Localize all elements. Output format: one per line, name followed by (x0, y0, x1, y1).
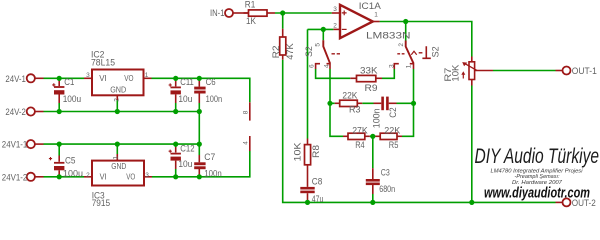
junction C3 bottom (370, 200, 375, 205)
svg-text:C3: C3 (381, 167, 390, 177)
capacitor C6 (100n) (194, 87, 205, 94)
junction C6 top (197, 76, 202, 81)
junction IC3 GND (115, 142, 120, 147)
wire right column R3 to R5 (402, 103, 414, 136)
pin C11 top (175, 81, 177, 86)
svg-text:R5: R5 (389, 140, 399, 150)
pin IC3 VO (144, 176, 152, 178)
junction C1 bottom (57, 109, 62, 114)
wire +24V row to IC2 VI (44, 77, 85, 79)
pin C8 top (307, 172, 309, 187)
switch S2 right section arm (406, 41, 414, 64)
svg-text:22K: 22K (342, 90, 357, 100)
pin IC3 VI (84, 176, 92, 178)
wire C11 column (175, 78, 177, 111)
pin stub OUT-2 (556, 201, 563, 203)
svg-text:www.diyaudiotr.com: www.diyaudiotr.com (484, 185, 590, 201)
wire +15V rail from IC2 VO to op-amp V+ corner (152, 78, 250, 102)
wire right pivot 2 drop (405, 22, 407, 41)
capacitor C12 (polarized 10u) (169, 150, 181, 161)
pin C2 right (389, 102, 397, 104)
svg-text:C5: C5 (65, 156, 76, 166)
switch S2 left section arm (323, 40, 330, 63)
wire op-amp output row (380, 22, 472, 57)
wire 24V1-2 row to IC3 VI (44, 176, 85, 178)
svg-text:VO: VO (124, 74, 133, 83)
wire R9 to contact3 (382, 69, 394, 78)
pin R2 top (282, 29, 284, 37)
junction C12 bottom (173, 174, 178, 179)
svg-text:GND: GND (110, 86, 126, 95)
pin C5 bottom (58, 170, 60, 177)
pin circle OUT-2 (563, 198, 571, 206)
switch S2 actuator caret (411, 51, 416, 55)
svg-text:LM833N: LM833N (366, 31, 411, 41)
svg-text:33K: 33K (360, 66, 378, 76)
pin op-amp in- (333, 28, 340, 30)
pin op-amp V+ 8 (249, 102, 251, 120)
pin R1 right (267, 12, 275, 14)
svg-text:3: 3 (86, 72, 90, 79)
wire C7 column (198, 144, 200, 177)
junction C1 top (57, 76, 62, 81)
svg-text:R2: R2 (271, 45, 281, 58)
svg-text:DIY Audio Türkiye: DIY Audio Türkiye (475, 144, 600, 168)
svg-text:1: 1 (145, 72, 149, 79)
svg-text:OUT-1: OUT-1 (572, 66, 597, 76)
svg-text:8: 8 (243, 110, 250, 114)
potentiometer R7 wiper arrow (462, 62, 477, 70)
capacitor C7 (100n) (194, 162, 205, 169)
capacitor C5 (polarized 100u) (49, 157, 65, 170)
pin R1 left (244, 12, 249, 14)
wire IC2 GND pin to ground row (116, 100, 118, 112)
pin R2 bottom (282, 55, 284, 60)
junction C12 top (173, 142, 178, 147)
capacitor C11 (polarized 10u) (169, 83, 181, 94)
junction R7 bottom (469, 200, 474, 205)
junction R4 R5 C3 (370, 134, 375, 139)
svg-text:3: 3 (145, 172, 149, 179)
wire R8-C8 column (307, 29, 309, 138)
resistor R5 (380, 133, 397, 139)
IC3 7915 regulator box (92, 161, 144, 186)
pin stub 24V-1 (35, 77, 44, 79)
capacitor C8 (47u) (300, 187, 314, 193)
pin IC2 VO (144, 77, 152, 79)
IC2 78L15 regulator box (92, 70, 144, 96)
svg-text:6: 6 (309, 64, 316, 68)
pin R5 left (375, 135, 380, 137)
svg-text:2: 2 (333, 23, 337, 30)
svg-text:C2: C2 (388, 107, 398, 117)
wire R2 column and bottom ground row (283, 13, 556, 202)
pin R9 left (350, 77, 356, 79)
svg-text:3: 3 (389, 64, 396, 68)
pin C7 top (198, 155, 200, 162)
svg-text:IC1A: IC1A (359, 1, 381, 11)
svg-text:R4: R4 (355, 140, 365, 150)
svg-text:1: 1 (113, 156, 120, 160)
pin stub IN-1 (233, 12, 248, 14)
junction C11 bottom (173, 109, 178, 114)
resistor R9 (357, 75, 376, 81)
svg-text:C12: C12 (180, 143, 194, 153)
wire right pole down to R5 junction (413, 69, 415, 103)
op-amp minus sign (342, 28, 347, 30)
pin C12 bottom (175, 161, 177, 169)
svg-text:100n: 100n (206, 94, 223, 104)
pin R3 left (335, 102, 340, 104)
svg-text:VI: VI (99, 74, 107, 83)
svg-text:C1: C1 (64, 77, 74, 87)
svg-text:1: 1 (405, 64, 412, 68)
svg-text:IN-1: IN-1 (210, 8, 225, 18)
pin R4 right (365, 135, 370, 137)
capacitor C2 (100n, horizontal) (381, 97, 388, 111)
pin C1 bottom (58, 95, 60, 104)
wire left column R3 to R4 (330, 103, 343, 136)
svg-text:100n: 100n (204, 169, 222, 179)
pin C3 top (372, 168, 374, 179)
svg-text:C7: C7 (204, 152, 215, 162)
pin C6 bottom (198, 94, 200, 104)
svg-text:100n: 100n (371, 109, 381, 129)
wire C6 top stub (198, 78, 200, 111)
svg-text:24V-1: 24V-1 (5, 74, 26, 84)
pin R5 right (397, 135, 402, 137)
wire left pole down to R3 junction (329, 69, 331, 103)
resistor R3 (340, 100, 358, 106)
svg-text:VI: VI (100, 173, 107, 182)
junction C7 top (197, 142, 202, 147)
potentiometer R7 body (469, 62, 475, 80)
junction input node (280, 10, 285, 15)
pin R8 top (307, 139, 309, 145)
wire R7 bottom to ground row (471, 86, 473, 203)
pin R7 wiper (475, 70, 494, 72)
svg-text:C8: C8 (312, 177, 323, 187)
junction C6 bottom (197, 109, 202, 114)
pin circle IN-1 (225, 9, 233, 17)
pin op-amp in+ (332, 12, 340, 14)
junction C5 top (57, 142, 62, 147)
svg-text:100u: 100u (63, 94, 81, 104)
junction C11 top (173, 76, 178, 81)
pin circle 24V1-1 (27, 140, 35, 148)
wire R7 wiper to OUT-1 (493, 70, 556, 72)
svg-text:R8: R8 (311, 145, 321, 158)
junction R3 right (411, 101, 416, 106)
op-amp IC1A triangle (340, 5, 373, 38)
svg-text:5: 5 (315, 43, 322, 47)
switch S2 latch T symbol (422, 46, 430, 58)
svg-text:100u: 100u (63, 169, 83, 179)
pin C6 top (198, 81, 200, 87)
pin C2 left (374, 102, 382, 104)
svg-text:24V-2: 24V-2 (5, 107, 26, 117)
svg-text:C6: C6 (206, 77, 216, 87)
capacitor C3 (680n) (366, 179, 380, 185)
svg-text:R3: R3 (349, 105, 361, 115)
op-amp plus sign (342, 11, 347, 16)
junction C5 bottom (57, 174, 62, 179)
switch S2 gang dashes right (397, 53, 405, 55)
svg-text:S2: S2 (304, 46, 314, 57)
wire 24V-2 ground row (44, 111, 200, 113)
pin IC2 VI (84, 77, 92, 79)
wire switch pivot 5 drop (322, 29, 324, 40)
junction R3 left (327, 101, 332, 106)
svg-text:24V1-2: 24V1-2 (2, 172, 28, 182)
switch S2 left pole contact (327, 64, 331, 69)
pin stub 24V1-1 (35, 143, 44, 145)
svg-text:4: 4 (243, 141, 250, 145)
svg-text:2: 2 (86, 172, 90, 179)
pin C11 bottom (175, 94, 177, 103)
svg-text:47u: 47u (312, 194, 324, 204)
svg-text:C11: C11 (180, 77, 194, 87)
potentiometer R7 adjust arrow (461, 71, 465, 78)
svg-text:10K: 10K (450, 65, 460, 82)
svg-text:7915: 7915 (92, 198, 111, 208)
junction output node (403, 19, 408, 24)
svg-text:2: 2 (113, 98, 120, 102)
junction IC2 GND (115, 109, 120, 114)
pin C3 bottom (372, 185, 374, 194)
wire C12 column (175, 144, 177, 177)
junction C8 bottom (305, 200, 310, 205)
svg-text:3: 3 (333, 6, 337, 13)
pin circle OUT-1 (563, 67, 571, 75)
pin C5 top (58, 156, 60, 162)
svg-text:10u: 10u (178, 159, 192, 169)
svg-text:GND: GND (111, 162, 126, 171)
junction inverting node (321, 27, 326, 32)
pin stub OUT-1 (556, 70, 563, 72)
resistor R4 (348, 133, 365, 139)
pin circle 24V-2 (27, 107, 35, 115)
pin op-amp out (373, 21, 380, 23)
wire ground vertical link (198, 112, 200, 145)
wire R4 R5 middle junction (370, 135, 375, 137)
svg-text:S2: S2 (431, 46, 441, 57)
pin C7 bottom (198, 169, 200, 175)
pin R4 left (343, 135, 348, 137)
PIN CIRCLES (27, 9, 571, 206)
pin C12 top (175, 147, 177, 153)
svg-text:4: 4 (323, 64, 330, 68)
wire R3 row segments (330, 102, 414, 104)
svg-text:22K: 22K (384, 126, 400, 136)
switch S2 right pole contact (410, 64, 414, 69)
wire contact6 to R9 row (316, 69, 351, 78)
resistor R2 (280, 37, 286, 55)
wire C3 column (372, 136, 374, 202)
switch S2 left contact 6 (316, 64, 320, 69)
wire IC3 GND pin to ground row (116, 144, 118, 154)
wire ground link row 24V1-1 (44, 143, 200, 145)
capacitor C1 (polarized 100u) (52, 83, 64, 94)
pin R7 top (471, 57, 473, 62)
svg-text:78L15: 78L15 (91, 58, 115, 68)
wire C1 column (58, 78, 60, 111)
resistor R8 (305, 145, 311, 165)
wire inverting node row (308, 28, 334, 30)
svg-text:27K: 27K (352, 126, 368, 136)
pin C1 top (58, 81, 60, 86)
svg-text:47K: 47K (285, 43, 295, 60)
switch S2 gang dashes left (332, 53, 341, 55)
svg-text:10u: 10u (178, 94, 192, 104)
svg-text:680n: 680n (379, 184, 395, 194)
svg-text:1: 1 (374, 12, 378, 19)
wire -15V rail from IC3 VO to op-amp V- corner (152, 151, 250, 177)
pin stub 24V1-2 (35, 176, 44, 178)
pin circle 24V-1 (27, 74, 35, 82)
pin R3 right (357, 102, 362, 104)
pin R9 right (376, 77, 382, 79)
pin C8 bottom (307, 193, 309, 202)
svg-text:R9: R9 (365, 83, 378, 93)
pin R7 bottom (471, 80, 473, 86)
wire input node R1 to op-amp pin3 (275, 12, 332, 14)
junction C7 bottom (197, 174, 202, 179)
svg-text:24V1-1: 24V1-1 (2, 140, 28, 150)
switch S2 right contact 3 (394, 64, 399, 69)
switch S2 actuator dash (419, 52, 423, 54)
pin R8 bottom (307, 165, 309, 172)
svg-text:VO: VO (126, 173, 135, 182)
pin op-amp V- 4 (249, 136, 251, 151)
pin IC2 GND (116, 95, 118, 100)
pin stub 24V-2 (35, 111, 44, 113)
wire C5 column (58, 144, 60, 155)
svg-text:10K: 10K (292, 143, 302, 162)
svg-text:R1: R1 (245, 0, 256, 9)
pin IC3 GND (116, 154, 118, 161)
svg-text:1K: 1K (246, 16, 256, 26)
svg-text:2: 2 (398, 43, 405, 47)
pin circle 24V1-2 (27, 173, 35, 181)
resistor R1 (249, 10, 268, 16)
